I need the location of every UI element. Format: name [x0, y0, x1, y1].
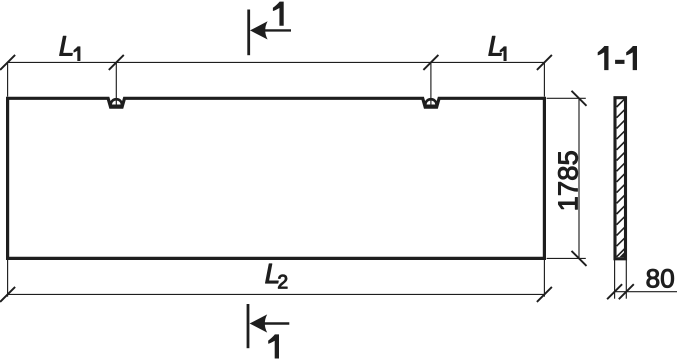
lifting loop 2 [425, 99, 436, 105]
tick 1785 top [572, 91, 587, 106]
top dimension line [8, 61, 545, 63]
section mark bottom: arrowhead [250, 314, 268, 332]
extension line bottom right [543, 260, 545, 297]
label 1 bottom section mark [268, 334, 279, 358]
label 80 digit 0 [661, 269, 674, 288]
tick top 1 [0, 55, 15, 70]
section hatching [617, 99, 625, 257]
extension line 1785 top [547, 97, 586, 99]
label L2 letter [266, 264, 279, 283]
right dimension 1785 [578, 98, 580, 258]
panel outline with recess openings [8, 98, 545, 258]
label 1785 (rotated) [558, 151, 577, 209]
section mark top: arrow shaft [259, 29, 291, 31]
tick 80 left [607, 284, 622, 299]
section mark bottom: cutting line [247, 304, 250, 348]
label 1 top section mark [273, 2, 284, 26]
bottom dimension line L2 [8, 293, 545, 295]
label L1 right [489, 36, 502, 55]
section title 1-1 [598, 46, 609, 70]
tick bottom right [537, 287, 552, 302]
tick top 3 [423, 55, 438, 70]
tick top 2 [109, 55, 124, 70]
section mark bottom: arrow shaft [258, 322, 289, 324]
extension line 1785 bottom [547, 257, 586, 259]
tick bottom left [0, 287, 15, 302]
tick 1785 bottom [572, 251, 587, 266]
80 dimension line [614, 291, 677, 293]
section view rectangle [615, 98, 626, 259]
section mark top: cutting line [247, 10, 250, 56]
label L1 left [60, 36, 73, 55]
extension line bottom left [7, 260, 9, 297]
extension line right [543, 62, 545, 96]
extension line left [7, 62, 9, 96]
section mark top: arrowhead [250, 21, 268, 39]
label 80 digit 8 [647, 269, 659, 288]
label L2 subscript 2 [278, 275, 287, 289]
extension line 80 right [625, 260, 627, 299]
tick top 4 [537, 55, 552, 70]
lifting loop 1 [111, 99, 122, 105]
extension line 80 left [614, 260, 616, 299]
extension line loop 2 [430, 62, 432, 104]
tick 80 right [619, 284, 634, 299]
extension line loop 1 [115, 62, 117, 104]
section hatch corner fill [619, 252, 624, 257]
